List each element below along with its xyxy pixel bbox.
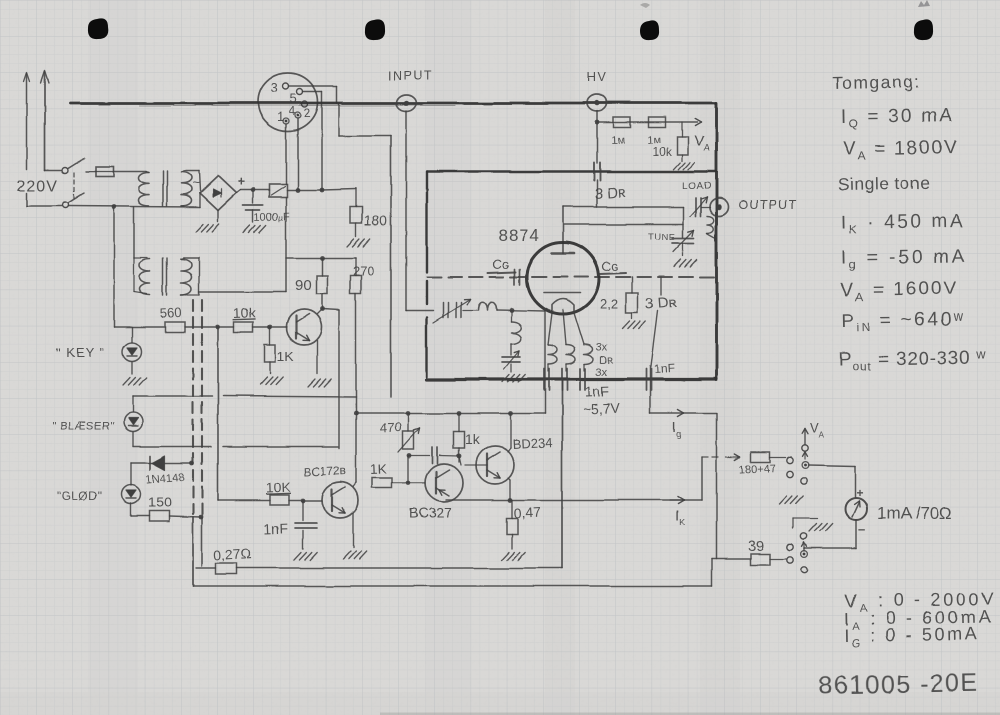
svg-text:+: +: [856, 486, 863, 500]
svg-text:180: 180: [364, 213, 388, 229]
svg-text:OUTPUT: OUTPUT: [739, 198, 798, 212]
svg-text:10K: 10K: [266, 479, 292, 496]
svg-text:Cɢ: Cɢ: [492, 256, 509, 272]
svg-text:150: 150: [148, 494, 172, 510]
svg-text:0,47: 0,47: [513, 504, 541, 521]
svg-text:560: 560: [159, 305, 181, 321]
svg-text:1k: 1k: [465, 431, 481, 447]
svg-text:1nF: 1nF: [264, 520, 289, 537]
svg-text:1K: 1K: [370, 460, 388, 477]
svg-text:BC327: BC327: [409, 505, 452, 521]
svg-text:Cɢ: Cɢ: [601, 258, 618, 274]
svg-text:2: 2: [304, 106, 311, 120]
svg-text:~: ~: [192, 175, 200, 190]
svg-text:–: –: [858, 521, 865, 536]
svg-text:90: 90: [295, 277, 312, 294]
svg-text:8874: 8874: [498, 226, 540, 245]
svg-text:+: +: [237, 174, 245, 189]
svg-text:1: 1: [277, 109, 284, 124]
svg-text:BC172ʙ: BC172ʙ: [303, 464, 347, 479]
svg-text:3: 3: [271, 80, 278, 95]
svg-text:39: 39: [748, 538, 765, 555]
svg-text:INPUT: INPUT: [388, 69, 433, 83]
svg-text:Single tone: Single tone: [838, 172, 931, 194]
svg-text:3x: 3x: [595, 367, 607, 379]
svg-text:1000µF: 1000µF: [254, 211, 290, 224]
svg-text:10k: 10k: [652, 145, 672, 159]
svg-text:" KEY ": " KEY ": [56, 345, 105, 360]
svg-text:4: 4: [289, 104, 296, 118]
svg-text:1nF: 1nF: [653, 361, 674, 376]
svg-text:10k: 10k: [233, 304, 257, 321]
svg-text:LOAD: LOAD: [682, 181, 712, 192]
svg-text:~5,7V: ~5,7V: [583, 400, 621, 417]
svg-text:" BLÆSER": " BLÆSER": [52, 421, 114, 433]
svg-text:1mA /70Ω: 1mA /70Ω: [877, 504, 952, 523]
svg-text:HV: HV: [587, 70, 607, 84]
svg-text:3 Dʀ: 3 Dʀ: [645, 294, 678, 313]
svg-text:0,27Ω: 0,27Ω: [213, 545, 252, 563]
svg-text:2,2: 2,2: [600, 296, 618, 311]
svg-text:270: 270: [353, 264, 375, 279]
svg-text:1nF: 1nF: [585, 383, 610, 400]
svg-text:BD234: BD234: [512, 435, 552, 452]
svg-text:Tomgang:: Tomgang:: [832, 71, 921, 93]
svg-text:180+47: 180+47: [739, 463, 776, 476]
svg-text:220V: 220V: [17, 178, 58, 195]
svg-text:1ᴍ: 1ᴍ: [611, 135, 625, 147]
svg-text:3x: 3x: [596, 342, 608, 354]
svg-text:1K: 1K: [277, 348, 295, 364]
svg-text:3 Dʀ: 3 Dʀ: [594, 184, 627, 203]
svg-text:470: 470: [379, 419, 401, 435]
svg-text:TUNE: TUNE: [648, 232, 675, 243]
svg-text:861005 -20E: 861005 -20E: [819, 669, 979, 700]
svg-text:Dʀ: Dʀ: [599, 355, 613, 367]
svg-text:"GLØD": "GLØD": [57, 489, 103, 503]
